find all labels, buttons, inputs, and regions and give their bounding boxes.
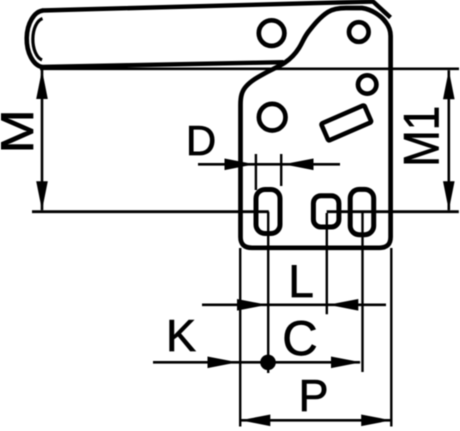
right mounting slot	[350, 189, 374, 234]
pivot hole on lever	[259, 20, 285, 46]
dimension M upper arrowhead	[36, 70, 48, 99]
dimension M lower arrowhead	[36, 181, 48, 210]
dimension C arrowhead	[331, 357, 361, 369]
dimension P line	[240, 419, 391, 422]
svg-text:P: P	[298, 370, 328, 421]
dimension D left arrowhead	[225, 159, 255, 171]
slanted rectangular slot	[321, 105, 371, 141]
left mounting slot	[256, 190, 280, 234]
dimension P left arrowhead	[240, 415, 270, 427]
body right edge extension line	[390, 248, 392, 427]
handle left rounded end cap	[27, 11, 43, 68]
body left edge extension line	[239, 248, 241, 427]
small hole top right	[349, 22, 369, 42]
clamp body mounting plate outline	[241, 8, 391, 248]
dimension D line	[198, 163, 340, 166]
svg-text:D: D	[186, 117, 216, 164]
datum dot on C line	[260, 355, 276, 371]
dimension M line	[41, 70, 44, 210]
dimension L right extension line	[326, 213, 328, 314]
dimension P right arrowhead	[361, 415, 391, 427]
svg-text:M: M	[0, 109, 43, 153]
handle lever arm top edge	[42, 2, 391, 18]
svg-text:L: L	[288, 255, 314, 307]
handle lever arm bottom edge	[41, 62, 284, 67]
svg-text:K: K	[166, 310, 196, 361]
dimension L left arrowhead	[237, 299, 267, 311]
middle mounting slot	[313, 196, 339, 227]
dimension D right arrowhead	[284, 159, 314, 171]
dimension L right arrowhead	[328, 299, 358, 311]
dimension M1 lower arrowhead	[443, 181, 455, 210]
dimension K/C line	[153, 361, 360, 364]
large hole mid body	[259, 104, 286, 131]
dimension D right extension line	[280, 154, 282, 186]
dimension D left extension line	[255, 154, 257, 190]
top reference line	[40, 68, 459, 71]
dimension L line	[202, 303, 386, 306]
svg-text:C: C	[282, 312, 317, 366]
dimension K arrowhead	[208, 357, 238, 369]
right slot centre extension line	[361, 212, 363, 372]
svg-text:M1: M1	[394, 106, 450, 167]
bottom baseline left segment	[32, 210, 269, 213]
dimension M1 upper arrowhead	[443, 70, 455, 99]
dimension M1 line	[447, 70, 450, 210]
handle end cap inner chamfer arc	[33, 19, 43, 61]
small hole below reference line	[358, 75, 376, 93]
left slot centre extension line	[267, 212, 269, 373]
bottom baseline right segment	[327, 210, 459, 213]
